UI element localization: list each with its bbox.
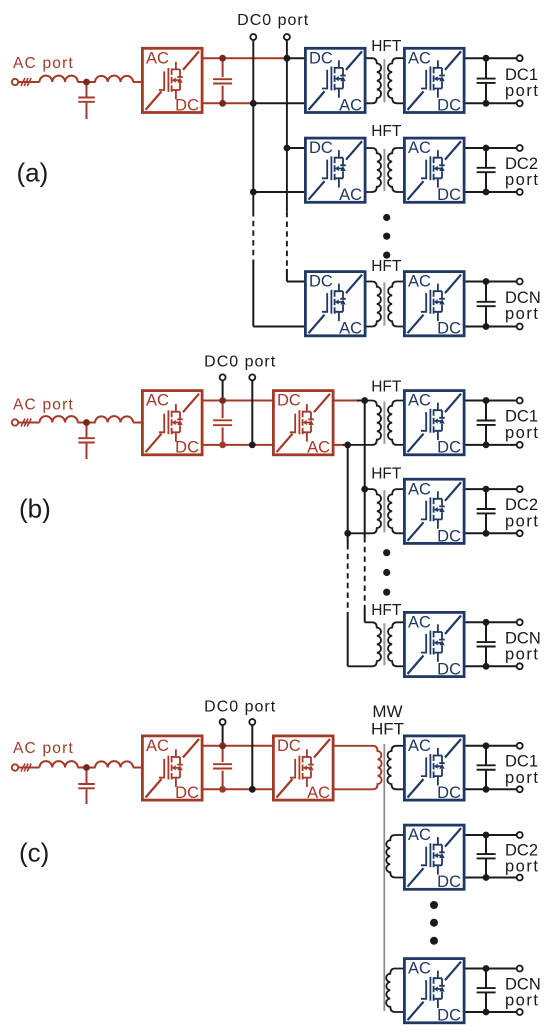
node C0 bottom (a): [219, 100, 226, 107]
svg-text:HFT: HFT: [371, 720, 404, 739]
node DC0 neg (c): [249, 786, 256, 793]
svg-text:DC: DC: [175, 439, 199, 457]
filter capacitor DCN port (c): [477, 969, 496, 1013]
DC2 port terminals (a): [517, 145, 523, 195]
wire (a between coils): [78, 81, 142, 83]
svg-text:AC: AC: [307, 439, 330, 457]
svg-text:DC: DC: [437, 527, 461, 545]
ellipsis dots (c): [430, 901, 438, 945]
node DC0 neg (b): [249, 442, 256, 449]
svg-text:AC: AC: [408, 392, 431, 410]
DCN port terminals (a): [517, 279, 523, 330]
filter capacitor DCN port (a): [477, 282, 496, 327]
HFT core (a row1): [383, 59, 385, 102]
converter block blue AC/DC (a row1) (AC/DC): [404, 48, 464, 114]
converter block blue DC/AC (a rowN) (DC/AC): [305, 272, 365, 338]
converter block blue DC/AC (a row2) (DC/AC): [305, 138, 365, 204]
output wires DC1 port (a): [466, 58, 517, 103]
DCN port label (c): [505, 975, 541, 1009]
wire (a dc-link bottom, black): [253, 102, 304, 104]
output wires DC2 port (b): [466, 489, 517, 533]
converter block blue AC/DC (b row1) (AC/DC): [404, 391, 464, 457]
svg-text:HFT: HFT: [371, 602, 402, 619]
wire (c dc-link top): [204, 745, 273, 747]
svg-text:(b): (b): [19, 494, 51, 524]
svg-text:DC: DC: [309, 273, 333, 291]
node filter (b): [83, 419, 90, 426]
node C0 bottom (c): [219, 786, 226, 793]
DC0 port label (a): [237, 12, 309, 29]
svg-text:DC: DC: [437, 784, 461, 802]
bus junction nodes (a): [250, 55, 290, 196]
filter capacitor DC2 port (b): [477, 489, 496, 533]
wire (a row3 top): [287, 281, 304, 283]
HFT label (a row1): [371, 38, 402, 55]
filter capacitor DC2 port (a): [477, 148, 496, 192]
junction nodes DC2 port (a): [483, 145, 490, 196]
svg-text:port: port: [505, 991, 539, 1009]
svg-text:DC: DC: [437, 320, 461, 338]
filter capacitor DC1 port (b): [477, 401, 496, 445]
DC0 leads (b): [223, 380, 253, 441]
bus right (a): [286, 40, 288, 282]
DC1 port terminals (c): [517, 743, 523, 793]
wire (a row3 bottom): [253, 326, 304, 328]
svg-text:AC: AC: [146, 392, 169, 410]
svg-text:port: port: [505, 305, 539, 323]
svg-text:HFT: HFT: [371, 466, 402, 483]
svg-text:AC: AC: [339, 96, 362, 114]
wire (b AC input): [18, 422, 39, 424]
inductor L2 (a): [95, 76, 133, 82]
junction nodes DC1 port (a): [483, 55, 490, 107]
inductor L1 (a): [39, 76, 77, 82]
svg-text:AC: AC: [408, 139, 431, 157]
output wires DC2 port (a): [466, 148, 517, 192]
AC port label (b): [13, 396, 74, 413]
DC1 port label (b): [505, 408, 539, 442]
converter block red AC/DC (c) (AC/DC): [142, 736, 202, 802]
HFT secondary winding (b row2): [388, 489, 404, 533]
svg-text:AC: AC: [408, 960, 431, 978]
dc-link capacitor C0 (c): [213, 749, 232, 786]
HFT primary winding (b row1): [348, 401, 381, 445]
output wires DCN port (b): [466, 622, 517, 666]
junction nodes DCN port (a): [483, 278, 490, 330]
AC port terminal (b): [12, 419, 18, 425]
converter block red DC/AC (b) (DC/AC): [273, 391, 333, 457]
filter capacitor DC1 port (a): [477, 58, 496, 103]
HFT secondary winding (a row2): [388, 148, 404, 192]
svg-text:AC: AC: [408, 737, 431, 755]
filter capacitor DC2 port (c): [477, 835, 496, 878]
HFT core (a rowN): [383, 283, 385, 326]
node C0 top (b): [219, 397, 226, 404]
DC0 port terminals (b): [220, 374, 256, 380]
converter block red AC/DC (a) (AC/DC): [142, 48, 202, 114]
filter capacitor Cf (b): [78, 426, 95, 460]
junction nodes DC1 port (c): [483, 742, 490, 792]
bus left (a): [252, 40, 254, 327]
DC2 port label (a): [505, 155, 539, 189]
node filter (c): [83, 764, 90, 771]
dc-link capacitor C0 (b): [213, 404, 232, 442]
svg-text:AC: AC: [339, 320, 362, 338]
HFT primary winding (a row2): [367, 148, 382, 192]
DCN port label (a): [505, 289, 541, 323]
svg-text:DC: DC: [437, 661, 461, 679]
svg-text:port: port: [505, 171, 539, 189]
converter block blue AC/DC (a row2) (AC/DC): [404, 138, 464, 204]
DC0 port label (b): [204, 354, 276, 371]
AC port label (a): [13, 55, 74, 72]
HFT core (b rowN): [383, 623, 385, 665]
DC1 port label (c): [505, 753, 539, 787]
output wires DCN port (a): [466, 282, 517, 327]
svg-text:AC port: AC port: [13, 396, 74, 413]
junction nodes DC2 port (c): [483, 832, 490, 881]
vertical bus B (b): [347, 445, 349, 666]
converter block blue AC/DC (a rowN) (AC/DC): [404, 272, 464, 338]
output wires DC1 port (b): [466, 401, 517, 445]
wire (b HFT top, black): [357, 400, 365, 402]
inductor L2 (b): [95, 416, 133, 422]
DC0 port label (c): [204, 699, 276, 716]
HFT primary winding (b row2): [348, 489, 381, 533]
HFT primary winding (b rowN): [348, 622, 381, 666]
svg-text:DC: DC: [437, 873, 461, 891]
svg-text:AC: AC: [307, 784, 330, 802]
AC port label (c): [13, 740, 74, 757]
ellipsis dots (b): [383, 549, 390, 596]
converter block blue AC/DC (c rowN) (AC/DC): [404, 959, 464, 1025]
svg-text:port: port: [505, 424, 539, 442]
wire (a row2 top): [287, 147, 304, 149]
wire (c dc-link bottom): [204, 788, 273, 790]
svg-text:port: port: [505, 769, 539, 787]
svg-text:DC: DC: [175, 96, 199, 114]
dc-link capacitor C0 (a): [213, 61, 232, 100]
svg-text:DC: DC: [437, 186, 461, 204]
svg-text:(c): (c): [19, 838, 49, 868]
inductor L1 (b): [39, 416, 77, 422]
svg-text:AC: AC: [408, 826, 431, 844]
MW HFT secondary winding (c row2): [386, 835, 403, 878]
wire (a row2 bottom): [253, 191, 304, 193]
converter block red DC/AC (c) (DC/AC): [273, 736, 333, 802]
svg-text:port: port: [505, 646, 539, 664]
vertical bus A (b): [364, 401, 366, 623]
svg-text:DC0 port: DC0 port: [237, 12, 309, 29]
DCN port label (b): [505, 629, 541, 663]
svg-text:HFT: HFT: [371, 379, 402, 396]
svg-text:HFT: HFT: [371, 38, 402, 55]
junction nodes DC1 port (b): [483, 397, 490, 448]
AC port terminal (c): [12, 764, 18, 770]
DC0 port terminals (a): [250, 34, 290, 40]
output wires DCN port (c): [466, 969, 517, 1013]
node filter (a): [83, 79, 90, 86]
wire (b dc-link bottom): [204, 444, 273, 446]
section label (a): [17, 158, 49, 188]
svg-text:AC: AC: [408, 273, 431, 291]
svg-text:port: port: [505, 857, 539, 875]
svg-text:HFT: HFT: [371, 123, 402, 140]
svg-text:port: port: [505, 512, 539, 530]
filter capacitor Cf (a): [78, 85, 95, 119]
HFT secondary winding (a rowN): [388, 282, 403, 327]
node C0 top (c): [219, 742, 226, 749]
svg-text:DC: DC: [437, 1007, 461, 1025]
converter block blue AC/DC (c row1) (AC/DC): [404, 736, 464, 802]
bus nodes (b): [344, 397, 368, 537]
wire (a dc-link bottom, red): [204, 102, 254, 104]
svg-text:DC: DC: [175, 784, 199, 802]
svg-text:AC: AC: [146, 49, 169, 67]
svg-text:AC: AC: [408, 614, 431, 632]
wire (a dc-link top, red): [204, 57, 288, 59]
svg-text:DC0 port: DC0 port: [204, 699, 276, 716]
DC1 port terminals (a): [517, 55, 523, 106]
wire (c between coils): [78, 767, 142, 769]
DC1 port terminals (b): [517, 398, 523, 448]
DC0 leads (c): [223, 725, 253, 786]
svg-text:AC: AC: [146, 737, 169, 755]
node C0 top (a): [219, 55, 226, 62]
AC port terminal (a): [12, 79, 18, 85]
HFT secondary winding (b rowN): [388, 622, 404, 666]
filter capacitor DC1 port (c): [477, 746, 496, 790]
HFT core (a row2): [383, 149, 385, 191]
MW HFT label (c): [371, 702, 404, 739]
svg-text:MW: MW: [372, 702, 402, 721]
output wires DC1 port (c): [466, 746, 517, 790]
wire (b between coils): [78, 422, 142, 424]
3-phase marks (c): [21, 764, 31, 772]
DC0 port terminals (c): [220, 719, 256, 725]
wire (b HFT bottom, black): [343, 444, 348, 446]
wire (b dc-link top): [204, 400, 273, 402]
svg-text:AC: AC: [408, 480, 431, 498]
HFT secondary winding (a row1): [388, 58, 404, 103]
converter block red AC/DC (b) (AC/DC): [142, 391, 202, 457]
DC2 port label (b): [505, 496, 539, 530]
wire (b block2 to HFT bottom, red): [335, 444, 344, 446]
svg-text:DC0 port: DC0 port: [204, 354, 276, 371]
converter block blue AC/DC (b row2) (AC/DC): [404, 479, 464, 545]
HFT secondary winding (b row1): [388, 401, 404, 445]
HFT label (b rowN): [371, 602, 402, 619]
HFT label (a rowN): [371, 258, 402, 275]
HFT primary winding (a row1): [367, 58, 382, 103]
HFT primary winding (a rowN): [367, 282, 381, 327]
converter block blue AC/DC (b rowN) (AC/DC): [404, 612, 464, 678]
inductor L2 (c): [95, 761, 133, 767]
DCN port terminals (c): [517, 966, 523, 1016]
junction nodes DCN port (c): [483, 965, 490, 1015]
HFT core (b row1): [383, 402, 385, 444]
section label (b): [19, 494, 51, 524]
filter capacitor Cf (c): [78, 771, 95, 805]
filter capacitor DCN port (b): [477, 622, 496, 666]
svg-text:(a): (a): [17, 158, 49, 188]
output wires DC2 port (c): [466, 835, 517, 878]
svg-text:DC: DC: [437, 96, 461, 114]
svg-text:AC port: AC port: [13, 55, 74, 72]
HFT label (b row1): [371, 379, 402, 396]
inductor L1 (c): [39, 761, 77, 767]
junction nodes DC2 port (b): [483, 486, 490, 537]
svg-text:DC: DC: [309, 49, 333, 67]
ellipsis dots (a): [383, 214, 390, 259]
MW HFT primary winding (c, red): [335, 746, 382, 790]
DC2 port terminals (b): [517, 486, 523, 536]
converter block blue AC/DC (c row2) (AC/DC): [404, 825, 464, 891]
DC2 port terminals (c): [517, 832, 523, 881]
svg-text:AC: AC: [339, 186, 362, 204]
svg-text:HFT: HFT: [371, 258, 402, 275]
HFT label (b row2): [371, 466, 402, 483]
section label (c): [19, 838, 49, 868]
DC1 port label (a): [505, 66, 539, 100]
HFT core (b row2): [383, 490, 385, 532]
DC2 port label (c): [505, 841, 539, 875]
HFT label (a row2): [371, 123, 402, 140]
svg-text:DC: DC: [437, 439, 461, 457]
MW HFT secondary winding (c row1): [387, 746, 403, 790]
MW HFT secondary winding (c rowN): [386, 969, 403, 1013]
junction nodes DCN port (b): [483, 619, 490, 670]
wire (c AC input): [18, 767, 39, 769]
svg-text:AC port: AC port: [13, 740, 74, 757]
svg-text:DC: DC: [309, 139, 333, 157]
wire (b block2 to HFT top, red): [335, 400, 358, 402]
converter block blue DC/AC (a row1) (DC/AC): [305, 48, 365, 114]
MW HFT shared core (c, gray): [383, 744, 385, 1011]
3-phase marks (b): [21, 419, 31, 427]
node C0 bottom (b): [219, 442, 226, 449]
3-phase marks (a): [21, 78, 31, 86]
DCN port terminals (b): [517, 619, 523, 669]
svg-text:DC: DC: [277, 392, 301, 410]
wire (a dc-link top, black): [287, 57, 304, 59]
svg-text:DC: DC: [277, 737, 301, 755]
wire (a AC input): [18, 81, 39, 83]
svg-text:port: port: [505, 82, 539, 100]
svg-text:AC: AC: [408, 49, 431, 67]
